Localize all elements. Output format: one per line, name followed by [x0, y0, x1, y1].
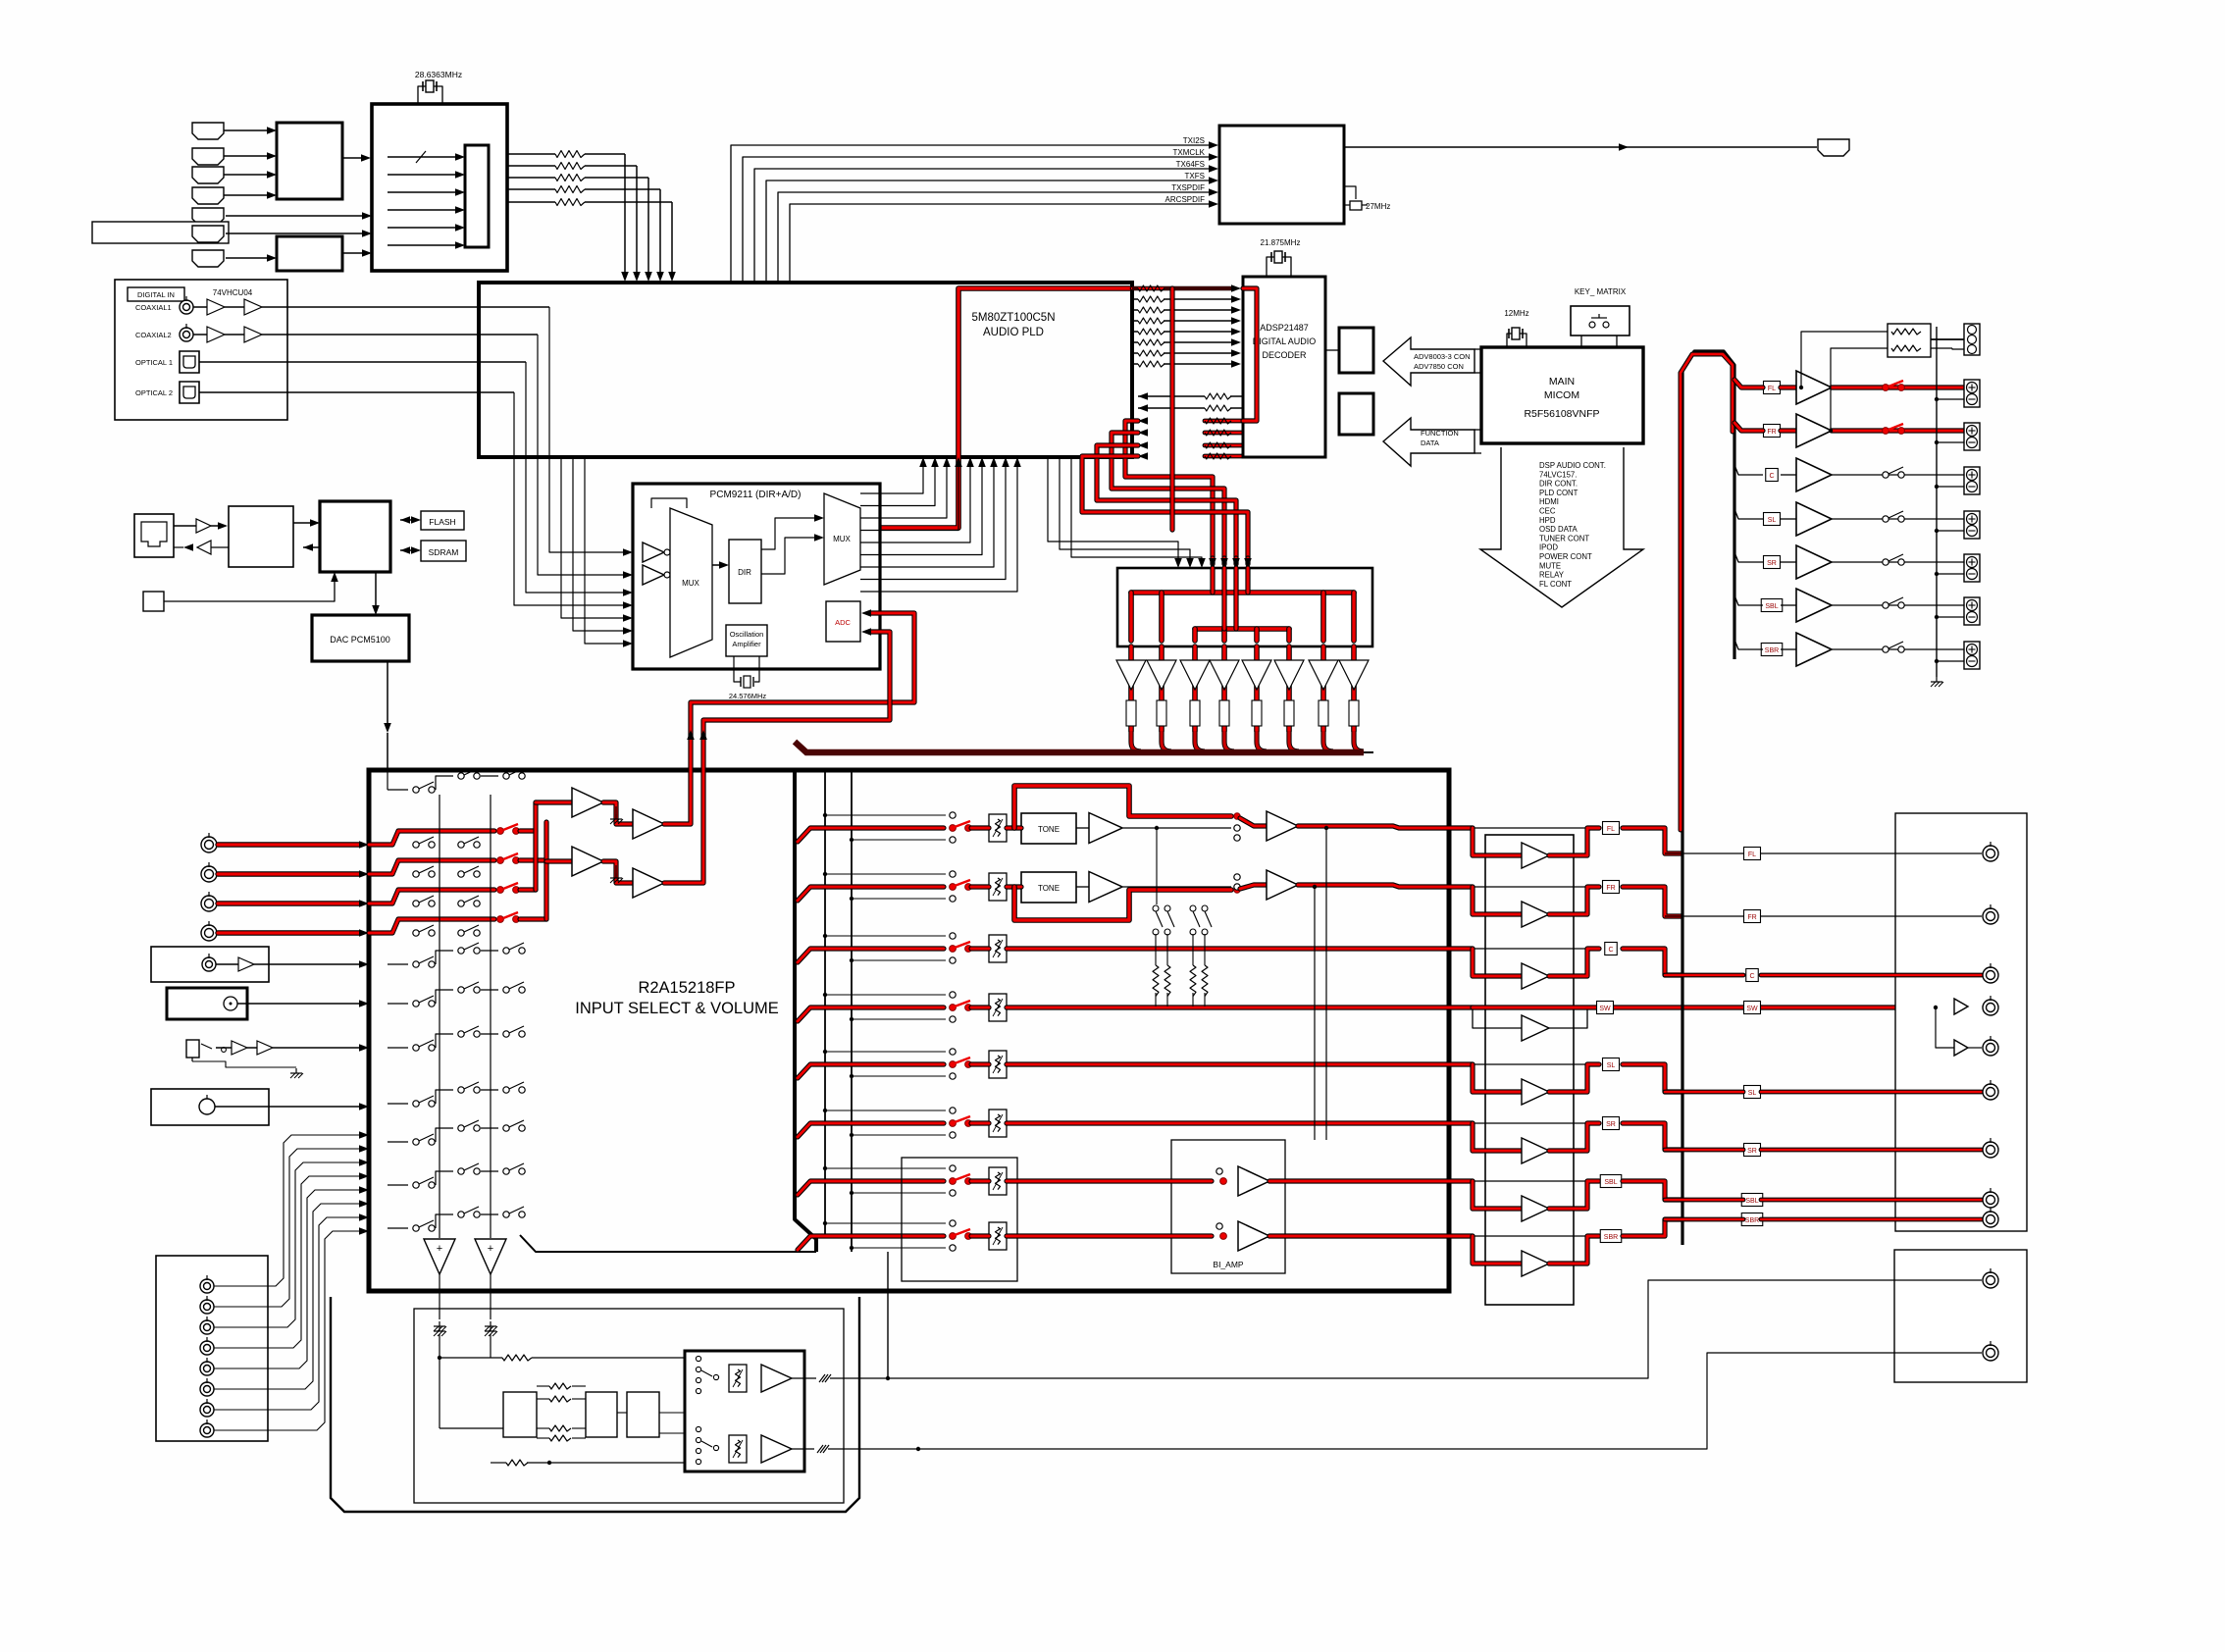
speaker amp SL [1796, 502, 1832, 536]
red wire dip out FL [1549, 828, 1599, 855]
wire tower to SBL [1734, 595, 1763, 605]
label DIGITAL IN [128, 287, 184, 301]
svg-text:Amplifier: Amplifier [732, 640, 761, 648]
label box SBL spk [1761, 599, 1783, 612]
attenuator row8 [989, 1222, 1007, 1250]
speaker terminal C [1964, 467, 1980, 494]
wire multichannel 7 [214, 1217, 359, 1410]
red wire ADSP to PLD 2 [1138, 429, 1148, 437]
HDMI input connector J6 front [192, 226, 224, 242]
speaker amp FL [1796, 371, 1832, 404]
wire coax2 route [538, 335, 623, 575]
zone2 RCA 1 [1983, 1272, 1998, 1288]
svg-text:12MHz: 12MHz [1504, 309, 1528, 318]
wire TXFS [766, 181, 1209, 283]
svg-text:OSD DATA: OSD DATA [1539, 525, 1578, 534]
red wire relay drop 6 [1286, 629, 1292, 641]
wire coax1 route [549, 307, 623, 552]
red wire FR to bus [1623, 887, 1682, 916]
svg-text:FR: FR [1767, 429, 1776, 436]
wire FL minus [1937, 398, 1964, 400]
red wire row4 att in [971, 1005, 989, 1009]
red wire SL to bus [1623, 1064, 1682, 1092]
MAIN MICOM box U7 [1481, 347, 1643, 443]
svg-text:DAC PCM5100: DAC PCM5100 [330, 635, 390, 645]
wire HDMI7 to box2 [226, 257, 267, 259]
wire tap top row5 [825, 1051, 946, 1053]
multichannel input box [156, 1256, 268, 1441]
red wire relay curl 8 [1354, 731, 1364, 751]
wire SL amp in [1781, 518, 1796, 520]
wire MUX2 out 2 [860, 467, 935, 506]
svg-text:PLD CONT: PLD CONT [1539, 489, 1578, 497]
wire preout FR [1665, 915, 1743, 917]
wire ADSP to boxA [1325, 349, 1339, 351]
red wire relay curl 2 [1162, 731, 1171, 751]
speaker terminal SBL [1964, 597, 1980, 625]
wire FR minus [1937, 441, 1964, 443]
HDMI switch box U1 [277, 123, 342, 199]
red wire preout SBR [1665, 1217, 1743, 1222]
analog input RCA 3 [201, 896, 217, 911]
red wire relay join a [1210, 568, 1215, 593]
hp wire gndB down [490, 1334, 492, 1358]
svg-text:SW: SW [1599, 1006, 1611, 1012]
red switch row6 [950, 1120, 957, 1127]
red wire amp2 to ADC [664, 613, 914, 824]
wire PLD to ADSP 2 [1132, 298, 1138, 300]
wire tuner [216, 963, 238, 965]
red switch row2 [950, 884, 957, 891]
red wire dip out SR [1549, 1123, 1599, 1151]
red wire relay feed 2 [1221, 558, 1226, 564]
red wire row5 in [798, 1064, 944, 1078]
hollow arrow ADV CON [1383, 337, 1475, 386]
FLASH box [421, 511, 464, 530]
svg-text:+: + [437, 1243, 442, 1255]
headphone outer box [331, 1297, 859, 1512]
svg-text:SL: SL [1768, 517, 1777, 524]
wire C to term [1832, 474, 1964, 476]
wire phono [237, 1003, 359, 1005]
multichannel RCA 5 [200, 1362, 214, 1375]
wire U2 to HDMI receiver [342, 252, 362, 254]
red wire row7 to biamp [1007, 1178, 1212, 1183]
red wire to amp3 [546, 858, 572, 863]
SW branch wire [1936, 1007, 1954, 1048]
label box SR mid [1603, 1117, 1620, 1130]
svg-text:DIGITAL AUDIO: DIGITAL AUDIO [1253, 336, 1317, 346]
wire tower to SL [1734, 509, 1763, 519]
inverter IN1 [643, 542, 664, 562]
preout box [1895, 813, 2027, 1231]
red wire relay curl 7 [1323, 731, 1333, 751]
optical1 connector [180, 351, 199, 373]
optical2 connector [180, 382, 199, 403]
KEY_MATRIX box [1571, 306, 1630, 336]
tower bus outline left [1682, 351, 1734, 1245]
label box SBR mid [1600, 1230, 1622, 1243]
coaxial1 buffer B [244, 299, 262, 315]
U3 output wire R2 [507, 165, 555, 167]
inner pipeline register [465, 145, 489, 247]
multichannel RCA 7 [200, 1403, 214, 1417]
wire TONE-amp row2 [1076, 886, 1089, 888]
attenuator row3 [989, 935, 1007, 962]
wire ARCSPDIF [790, 204, 1209, 283]
wire portable [216, 1047, 232, 1049]
relay out RN 5 [1252, 700, 1262, 726]
coaxial2 jack [180, 328, 193, 341]
wire SBL minus [1937, 616, 1964, 618]
HDMI input connector J7 [192, 250, 224, 267]
red switch row y951 [369, 919, 494, 933]
relay out triangle 1 [1116, 660, 1146, 690]
wire biamp drop A [1325, 828, 1327, 1140]
svg-text:PCM9211 (DIR+A/D): PCM9211 (DIR+A/D) [710, 490, 802, 500]
amp3 gnd tie [615, 865, 617, 873]
red wire tower to FR [1734, 423, 1763, 431]
wire U9 to U8 back [303, 543, 313, 551]
speaker terminal FL [1964, 380, 1980, 407]
svg-text:74VHCU04: 74VHCU04 [213, 288, 253, 297]
wire relay ctl 3 [1071, 457, 1202, 558]
wire opt1 [199, 361, 526, 363]
svg-text:21.875MHz: 21.875MHz [1261, 238, 1301, 247]
wire opt1 route [526, 362, 623, 593]
black switch under y921 [413, 901, 419, 906]
wire MUX2 out 5 [860, 467, 970, 542]
wire tap bot row6 [852, 1134, 946, 1136]
red wire preout SR [1665, 1148, 1743, 1153]
red wire dip C [1473, 949, 1522, 976]
red wire relay out 8 [1351, 646, 1357, 731]
relay network feed [1156, 828, 1158, 904]
relay out RN 8 [1349, 700, 1359, 726]
red wire cont row4 [1007, 1005, 1473, 1009]
ADSP side box A [1339, 328, 1373, 373]
relay switch SBR [1883, 646, 1889, 652]
label box SR spk [1764, 556, 1781, 569]
wire bypass line FR [1473, 886, 1587, 888]
svg-text:TXMCLK: TXMCLK [1173, 148, 1206, 157]
wire U8 to U9 fwd [293, 522, 310, 524]
wire PLD to ADSP 1 [1132, 287, 1138, 289]
key switch [1589, 322, 1595, 328]
portable jack [186, 1040, 199, 1058]
wire coax1 [193, 306, 207, 308]
red wire row2 att in [971, 884, 989, 889]
preout RCA SR [1983, 1142, 1998, 1158]
matrix vertical A [439, 795, 440, 1238]
wire res to term3 [1931, 338, 1964, 340]
red switch row y861 [369, 831, 494, 845]
front panel HDMI strip [92, 222, 229, 243]
switch row y1252 [388, 1227, 408, 1229]
red wire to driver row2 [1298, 885, 1473, 887]
hp box B [586, 1392, 617, 1437]
wire SBL to term [1832, 604, 1964, 606]
ADSP side box B [1339, 393, 1373, 435]
red wire row2 in [798, 887, 944, 901]
svg-text:SBL: SBL [1604, 1179, 1617, 1186]
speaker amp SBR [1796, 633, 1832, 666]
wire tower to SBR [1734, 640, 1763, 649]
red wire relay drop 3 [1192, 629, 1198, 641]
svg-text:TXFS: TXFS [1185, 172, 1205, 181]
wire SL to term [1832, 518, 1964, 520]
wire mic [215, 1106, 359, 1108]
U3 internal wire 5 [388, 227, 455, 229]
wire tap bot row4 [852, 1018, 946, 1020]
relay network stubs [1155, 993, 1157, 1007]
wire bypass line SBR [1473, 1235, 1587, 1237]
red wire relay out 6 [1286, 646, 1292, 731]
red wire relay feed 4 [1245, 558, 1250, 564]
red vertical V1 [533, 802, 538, 890]
hp box A [503, 1392, 537, 1437]
red wire TONE bypass row1 [1014, 786, 1231, 828]
red relay switch FL [1883, 385, 1889, 391]
svg-text:FL: FL [1607, 826, 1615, 833]
wire PLD to ADSP 7 [1132, 352, 1138, 354]
speaker terminal SBR [1964, 642, 1980, 669]
svg-text:TONE: TONE [1038, 884, 1060, 893]
svg-text:FLASH: FLASH [429, 517, 455, 527]
svg-text:74LVC157.: 74LVC157. [1539, 470, 1577, 479]
red wire dip out FR [1549, 887, 1599, 914]
svg-text:OPTICAL 2: OPTICAL 2 [135, 388, 173, 397]
label box SL preout [1744, 1086, 1761, 1099]
relay out RN 1 [1126, 700, 1136, 726]
red wire cont row6 [1007, 1120, 1473, 1125]
HDMI receiver box U3 [372, 104, 507, 271]
wire MUX2 out 9 [860, 467, 1017, 592]
hp amp row2 [761, 1435, 792, 1463]
red wire PLD-ADSP row1 [1132, 286, 1234, 291]
crystal X5 wires [734, 656, 741, 682]
svg-text:TX64FS: TX64FS [1176, 160, 1205, 169]
svg-text:RELAY: RELAY [1539, 571, 1565, 580]
red wire PLD label-box right edge [1169, 288, 1174, 530]
red wire C to bus [1623, 949, 1682, 975]
red wire FL to bus [1623, 828, 1682, 853]
U3 output wire R1 [507, 153, 555, 155]
wire SR amp in [1781, 561, 1796, 563]
wire multichannel 3 [214, 1162, 359, 1327]
U3 internal wire 4 [388, 209, 455, 211]
red wire dip out C [1549, 949, 1599, 976]
wire multichannel 8 [214, 1231, 359, 1430]
svg-text:SBR: SBR [1765, 647, 1779, 654]
ADC box [826, 601, 860, 642]
red wire relay curl 1 [1131, 731, 1141, 751]
red wire dip SBL [1473, 1181, 1522, 1209]
svg-text:DIR: DIR [738, 568, 751, 577]
inverter IN2 [643, 565, 664, 585]
red switch row y891 [369, 860, 494, 874]
red wire relay join d [1245, 568, 1250, 593]
speaker terminal SL [1964, 511, 1980, 539]
driver amp FR [1522, 902, 1549, 927]
wire res to FR [1831, 348, 1888, 431]
hollow down arrow control [1480, 447, 1643, 607]
wire PLD to ADSP 3 [1132, 309, 1138, 311]
SW amp A [1954, 999, 1968, 1014]
wire SW amp B out [1968, 1047, 1982, 1049]
wire multichannel 2 [214, 1149, 359, 1307]
switch circles row6 [950, 1108, 956, 1113]
wire tap top row3 [825, 935, 946, 937]
wire tap top row8 [825, 1222, 946, 1224]
red switch row1 [950, 825, 957, 832]
svg-text:SBR: SBR [1604, 1234, 1618, 1241]
svg-text:HPD: HPD [1539, 516, 1556, 525]
R2A amp1 [572, 788, 603, 817]
switch row y805 [388, 789, 408, 791]
red wire row6 in [798, 1123, 944, 1137]
wire HDMI5 to receiver [226, 215, 362, 217]
driver amp FL [1522, 843, 1549, 868]
HDMI repeater box U2 [277, 236, 342, 271]
red switch row4 [950, 1005, 957, 1011]
red wire row1 in [798, 828, 944, 842]
switch circles row3 [950, 933, 956, 939]
biamp amp row8 [1238, 1221, 1269, 1251]
wire tower to C [1734, 465, 1763, 475]
svg-text:R2A15218FP: R2A15218FP [638, 979, 735, 997]
red wire amp4 to ADC [664, 632, 890, 883]
HDMI input connector J4 [192, 187, 224, 204]
red wire preout SL [1665, 1090, 1743, 1095]
svg-text:27MHz: 27MHz [1366, 202, 1390, 211]
svg-text:ADV7850 CON: ADV7850 CON [1414, 362, 1464, 371]
wire coax2 [193, 334, 207, 336]
red wire relay feed 1 [1210, 558, 1215, 564]
wire bypass line SL [1473, 1063, 1587, 1065]
red wire preout SBL [1665, 1198, 1743, 1203]
U3 output wire R5 [507, 201, 555, 203]
label box SL mid [1603, 1058, 1620, 1071]
SW amp B [1954, 1040, 1968, 1056]
red wire relay curl 4 [1224, 731, 1234, 751]
HDMI input connector J3 [192, 167, 224, 183]
speaker minus gnd [1936, 677, 1938, 682]
driver amp SR [1522, 1138, 1549, 1163]
red wire analog in 2 [218, 871, 359, 876]
wire U9 down to DAC [375, 572, 377, 605]
svg-text:ADV8003-3 CON: ADV8003-3 CON [1414, 352, 1471, 361]
switch circles row7 [950, 1165, 956, 1171]
analog input RCA 2 [201, 866, 217, 882]
relay network switches [1153, 905, 1159, 911]
hp circles row2 [696, 1426, 700, 1431]
multichannel RCA 8 [200, 1423, 214, 1437]
3-terminal block [1964, 324, 1980, 355]
red wire row8 att in [971, 1233, 989, 1238]
MUX2 trapezoid [824, 493, 860, 585]
red wire row7 att in [971, 1178, 989, 1183]
svg-text:FL: FL [1768, 386, 1776, 392]
wire C minus [1937, 486, 1964, 488]
red wire relay dist bot [1195, 626, 1289, 632]
amp TONE row2 [1089, 872, 1122, 903]
wire HDMI2 to switch [224, 155, 267, 157]
wire SW bypass amp [1473, 1007, 1522, 1028]
red wire ADSP to PLD 4 [1138, 452, 1148, 460]
red wire relay curl 5 [1257, 731, 1267, 751]
wire C amp in [1781, 474, 1796, 476]
red wire relay drop 5 [1254, 629, 1260, 641]
wire portable gnd [192, 1061, 296, 1067]
relay out triangle 2 [1147, 660, 1176, 690]
red wire relay drop 7 [1320, 593, 1326, 641]
svg-text:FL: FL [1748, 852, 1756, 858]
switch row y983 [388, 963, 408, 965]
matrix vertical B [490, 795, 492, 1238]
relay switch C [1883, 472, 1889, 478]
red wire relay out 2 [1159, 646, 1164, 731]
out switch row2 [1234, 887, 1240, 893]
red wire relay drop 8 [1351, 593, 1357, 641]
hp att row2 [729, 1435, 747, 1463]
red wire TONE bypass row2 [1014, 887, 1231, 920]
driver amp C [1522, 963, 1549, 989]
crystal X4 12MHz [1508, 329, 1510, 338]
label box SBR preout [1741, 1213, 1763, 1226]
mic jack [199, 1099, 215, 1114]
wire tap top row4 [825, 994, 946, 996]
hp switch row1 [701, 1370, 712, 1376]
svg-text:SL: SL [1748, 1090, 1757, 1097]
multichannel RCA 4 [200, 1341, 214, 1355]
speaker terminal SR [1964, 554, 1980, 582]
red wire relay out 4 [1221, 646, 1227, 731]
red wire row7 in [798, 1181, 944, 1195]
coaxial2 buffer B [244, 327, 262, 342]
portable switch [201, 1044, 212, 1049]
red switch row3 [950, 946, 957, 953]
svg-text:SBL: SBL [1765, 603, 1778, 610]
wire ADSP to PLD 1 [1138, 392, 1148, 400]
svg-text:ARCSPDIF: ARCSPDIF [1165, 195, 1206, 204]
svg-text:SR: SR [1767, 560, 1777, 567]
crystal X1 28.6363MHz wires [418, 86, 442, 104]
svg-text:SDRAM: SDRAM [429, 547, 459, 557]
HDMI input connector J2 [192, 148, 224, 165]
wire tap bot row7 [852, 1192, 946, 1194]
ADSP21487 box U6 [1243, 277, 1325, 457]
DIR box [729, 540, 761, 603]
wire SBL amp in [1781, 604, 1796, 606]
wire SBR amp in [1781, 648, 1796, 650]
wire MUX2 out 4 [860, 467, 958, 531]
hp res3 [491, 1462, 506, 1464]
hp wire b2b3 [617, 1412, 627, 1414]
svg-text:ADSP21487: ADSP21487 [1260, 323, 1309, 333]
svg-text:DIR CONT.: DIR CONT. [1539, 480, 1578, 489]
svg-text:FR: FR [1606, 885, 1615, 892]
driver amp SBR [1522, 1251, 1549, 1276]
hp out row2 [792, 1448, 814, 1450]
attenuator row2 [989, 873, 1007, 901]
wire amp out row1 [1122, 827, 1231, 829]
red wire FL to term [1832, 385, 1964, 389]
label box FR preout [1744, 910, 1761, 923]
svg-text:INPUT SELECT & VOLUME: INPUT SELECT & VOLUME [575, 1000, 779, 1017]
PHY box U8 [229, 506, 293, 567]
wire PLD to ADSP 6 [1132, 341, 1138, 343]
